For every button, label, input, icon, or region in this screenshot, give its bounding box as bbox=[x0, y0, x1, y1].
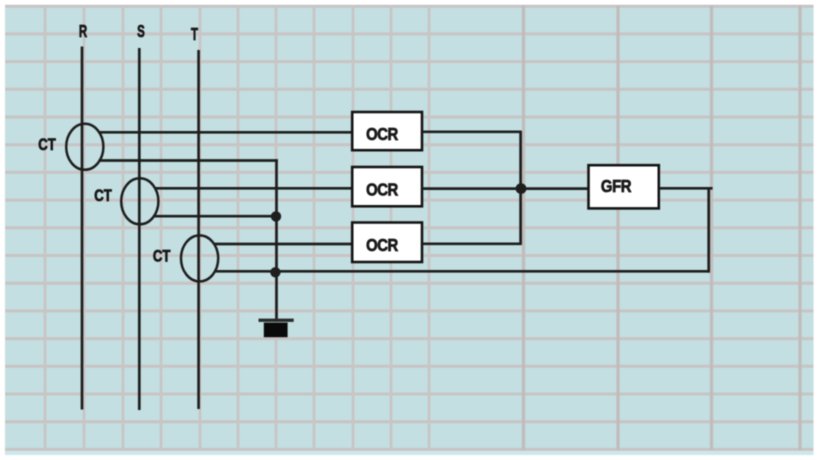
svg-text:CT: CT bbox=[153, 247, 171, 266]
relay OCR3 bbox=[352, 223, 422, 263]
node junction CT2-ground bbox=[271, 211, 281, 221]
wire phase T bus bbox=[197, 50, 200, 409]
node junction CT3-ground bbox=[270, 267, 280, 277]
wire CT1 secondary top to OCR1 bbox=[99, 131, 353, 134]
relay OCR2 bbox=[352, 167, 422, 206]
node junction OCR tie bbox=[516, 183, 527, 194]
wire phase R bus bbox=[81, 47, 84, 410]
transformer CT2 bbox=[121, 178, 158, 224]
svg-text:OCR: OCR bbox=[366, 236, 398, 255]
svg-text:GFR: GFR bbox=[601, 177, 632, 196]
wire GFR return vertical bbox=[707, 188, 710, 272]
relay OCR1 bbox=[352, 112, 422, 150]
wire ground branch vertical bbox=[275, 159, 278, 319]
wire OCR1 output bbox=[422, 130, 522, 133]
transformer CT3 bbox=[181, 235, 218, 281]
svg-text:S: S bbox=[137, 22, 145, 42]
relay GFR bbox=[589, 165, 659, 208]
wire CT2 secondary bottom to ground node bbox=[155, 215, 277, 218]
svg-text:R: R bbox=[79, 22, 87, 42]
wire phase S bus bbox=[138, 48, 141, 410]
wire OCR1-OCR3 tie vertical bbox=[519, 132, 522, 244]
wire GFR output bbox=[659, 187, 713, 190]
svg-text:OCR: OCR bbox=[366, 180, 398, 199]
ground symbol bbox=[259, 319, 294, 338]
svg-text:OCR: OCR bbox=[366, 125, 398, 144]
wire CT3 secondary bottom / GFR return bbox=[214, 270, 710, 273]
svg-text:T: T bbox=[191, 25, 199, 45]
transformer CT1 bbox=[66, 124, 103, 170]
wire OCR2 output to GFR bbox=[422, 187, 589, 190]
wire OCR3 output bbox=[422, 242, 522, 245]
svg-text:CT: CT bbox=[94, 187, 112, 206]
wire CT2 secondary top to OCR2 bbox=[155, 187, 353, 190]
svg-text:CT: CT bbox=[38, 136, 56, 155]
wire CT1 secondary bottom to ground node bbox=[99, 159, 278, 162]
wire CT3 secondary top to OCR3 bbox=[214, 243, 352, 246]
